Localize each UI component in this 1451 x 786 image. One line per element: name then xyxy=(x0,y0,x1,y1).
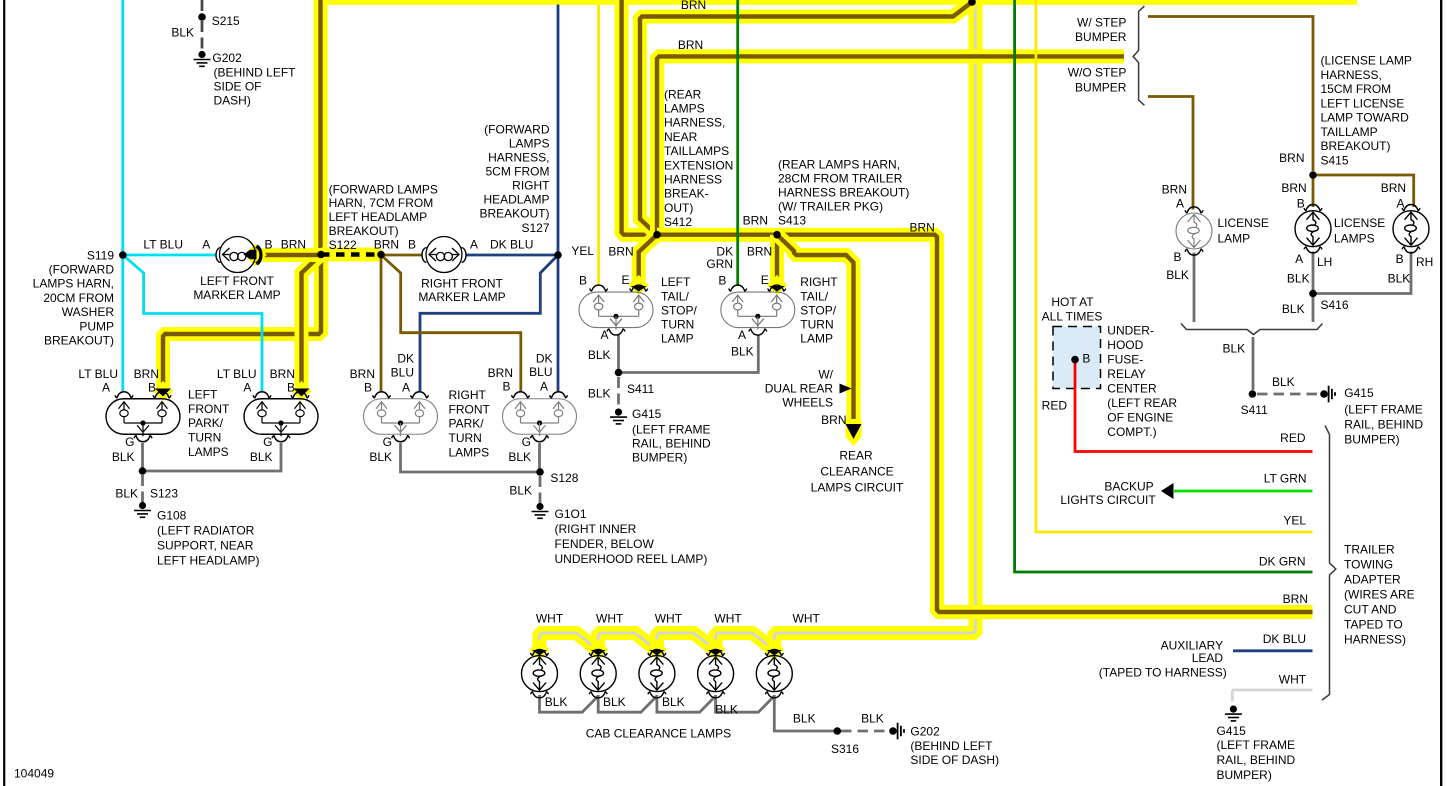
svg-text:BLK: BLK xyxy=(588,387,611,401)
svg-text:28CM FROM TRAILER: 28CM FROM TRAILER xyxy=(778,171,903,185)
svg-text:(REAR LAMPS HARN,: (REAR LAMPS HARN, xyxy=(778,157,900,171)
svg-text:OUT): OUT) xyxy=(664,201,693,215)
svg-text:FENDER, BELOW: FENDER, BELOW xyxy=(555,537,655,551)
svg-text:WHT: WHT xyxy=(714,612,742,626)
svg-text:WHT: WHT xyxy=(536,612,564,626)
svg-text:LAMP: LAMP xyxy=(661,331,694,345)
svg-text:HOOD: HOOD xyxy=(1107,338,1143,352)
svg-text:A: A xyxy=(738,328,746,342)
svg-text:BRN: BRN xyxy=(134,367,159,381)
svg-text:B: B xyxy=(264,237,272,251)
svg-text:REAR: REAR xyxy=(839,448,873,462)
svg-text:BRN: BRN xyxy=(910,220,935,234)
svg-text:HARNESS,: HARNESS, xyxy=(488,150,549,164)
svg-text:B: B xyxy=(148,380,156,394)
svg-text:WHT: WHT xyxy=(793,612,821,626)
svg-text:RIGHT: RIGHT xyxy=(800,275,838,289)
svg-text:SUPPORT, NEAR: SUPPORT, NEAR xyxy=(157,538,254,552)
svg-text:20CM FROM: 20CM FROM xyxy=(43,291,114,305)
svg-text:5CM FROM: 5CM FROM xyxy=(486,165,550,179)
svg-text:TURN: TURN xyxy=(800,317,833,331)
svg-text:WHT: WHT xyxy=(655,612,683,626)
svg-text:(REAR: (REAR xyxy=(664,87,702,101)
svg-text:CAB CLEARANCE LAMPS: CAB CLEARANCE LAMPS xyxy=(586,727,731,741)
svg-text:G202: G202 xyxy=(910,725,940,739)
svg-text:G: G xyxy=(263,435,272,449)
svg-text:B: B xyxy=(1297,197,1305,211)
svg-text:(RIGHT INNER: (RIGHT INNER xyxy=(555,522,637,536)
svg-text:LAMP: LAMP xyxy=(1218,231,1251,245)
svg-text:G415: G415 xyxy=(1217,724,1247,738)
svg-text:CUT AND: CUT AND xyxy=(1344,602,1397,616)
svg-text:W/: W/ xyxy=(818,367,833,381)
svg-text:LICENSE: LICENSE xyxy=(1218,216,1269,230)
svg-text:RED: RED xyxy=(1042,399,1068,413)
svg-text:LAMPS: LAMPS xyxy=(1334,231,1375,245)
svg-text:BLK: BLK xyxy=(250,450,273,464)
svg-text:BLK: BLK xyxy=(731,344,754,358)
svg-text:S411: S411 xyxy=(627,382,654,396)
svg-text:S128: S128 xyxy=(550,471,578,485)
svg-text:S415: S415 xyxy=(1321,153,1349,167)
svg-text:BLK: BLK xyxy=(508,450,531,464)
svg-text:E: E xyxy=(761,273,769,287)
svg-text:B: B xyxy=(408,237,416,251)
svg-text:HARNESS: HARNESS xyxy=(664,173,722,187)
svg-text:CENTER: CENTER xyxy=(1107,382,1157,396)
svg-text:ALL TIMES: ALL TIMES xyxy=(1042,310,1103,324)
svg-text:(LEFT FRAME: (LEFT FRAME xyxy=(1344,402,1422,416)
svg-text:OF ENGINE: OF ENGINE xyxy=(1107,411,1173,425)
svg-text:TURN: TURN xyxy=(661,317,694,331)
svg-text:15CM FROM: 15CM FROM xyxy=(1321,82,1392,96)
svg-text:LAMPS: LAMPS xyxy=(509,136,550,150)
svg-text:104049: 104049 xyxy=(14,767,54,781)
svg-text:LAMPS HARN,: LAMPS HARN, xyxy=(33,277,114,291)
svg-text:S416: S416 xyxy=(1321,298,1349,312)
svg-text:BRN: BRN xyxy=(374,237,399,251)
svg-text:TAPED TO: TAPED TO xyxy=(1344,617,1403,631)
svg-text:(LEFT FRAME: (LEFT FRAME xyxy=(632,423,710,437)
svg-text:BREAKOUT): BREAKOUT) xyxy=(1321,139,1391,153)
svg-text:RIGHT: RIGHT xyxy=(449,388,487,402)
svg-text:DUAL REAR: DUAL REAR xyxy=(765,381,834,395)
svg-text:G: G xyxy=(125,435,134,449)
svg-text:BLU: BLU xyxy=(391,365,414,379)
svg-text:BUMPER): BUMPER) xyxy=(1344,432,1399,446)
svg-text:NEAR: NEAR xyxy=(664,130,698,144)
svg-text:MARKER LAMP: MARKER LAMP xyxy=(193,288,280,302)
svg-text:BLK: BLK xyxy=(1272,375,1295,389)
svg-text:BRN: BRN xyxy=(678,38,703,52)
svg-text:RAIL, BEHIND: RAIL, BEHIND xyxy=(1344,417,1423,431)
svg-text:A: A xyxy=(1295,252,1303,266)
svg-text:EXTENSION: EXTENSION xyxy=(664,158,733,172)
svg-text:BLK: BLK xyxy=(1282,302,1305,316)
svg-text:DASH): DASH) xyxy=(214,93,251,107)
svg-text:RAIL, BEHIND: RAIL, BEHIND xyxy=(632,436,711,450)
svg-text:LEFT: LEFT xyxy=(188,388,218,402)
svg-text:A: A xyxy=(402,380,410,394)
svg-text:FUSE-: FUSE- xyxy=(1107,353,1143,367)
svg-text:BREAKOUT): BREAKOUT) xyxy=(329,224,399,238)
svg-text:BRN: BRN xyxy=(821,413,846,427)
svg-text:STOP/: STOP/ xyxy=(661,303,697,317)
svg-text:G415: G415 xyxy=(632,407,662,421)
svg-text:BRN: BRN xyxy=(1279,151,1304,165)
svg-text:B: B xyxy=(1082,351,1090,365)
svg-text:A: A xyxy=(600,328,608,342)
svg-text:LAMPS: LAMPS xyxy=(188,445,229,459)
svg-text:BLK: BLK xyxy=(662,695,685,709)
svg-text:CLEARANCE: CLEARANCE xyxy=(820,464,893,478)
svg-text:(LEFT FRAME: (LEFT FRAME xyxy=(1217,738,1295,752)
svg-text:FRONT: FRONT xyxy=(188,402,230,416)
svg-text:HOT AT: HOT AT xyxy=(1051,295,1094,309)
svg-text:B: B xyxy=(718,273,726,287)
svg-text:TAIL/: TAIL/ xyxy=(800,289,828,303)
svg-text:(TAPED TO HARNESS): (TAPED TO HARNESS) xyxy=(1099,665,1227,679)
svg-text:G202: G202 xyxy=(212,51,242,65)
svg-text:BLK: BLK xyxy=(369,450,392,464)
svg-text:TRAILER: TRAILER xyxy=(1344,542,1395,556)
svg-text:BREAKOUT): BREAKOUT) xyxy=(44,334,114,348)
svg-text:BLK: BLK xyxy=(793,712,816,726)
svg-text:FRONT: FRONT xyxy=(449,402,491,416)
svg-text:GRN: GRN xyxy=(706,257,733,271)
svg-text:BRN: BRN xyxy=(1283,592,1308,606)
svg-text:PUMP: PUMP xyxy=(79,319,114,333)
svg-text:G: G xyxy=(383,435,392,449)
svg-text:LEFT FRONT: LEFT FRONT xyxy=(200,274,274,288)
svg-text:LT GRN: LT GRN xyxy=(1264,471,1307,485)
svg-text:BLK: BLK xyxy=(545,695,568,709)
svg-text:B: B xyxy=(364,380,372,394)
svg-text:PARK/: PARK/ xyxy=(188,416,224,430)
svg-text:BRN: BRN xyxy=(747,244,772,258)
svg-text:A: A xyxy=(540,380,548,394)
svg-text:SIDE OF: SIDE OF xyxy=(214,79,262,93)
svg-text:BLU: BLU xyxy=(529,365,552,379)
svg-text:A: A xyxy=(1396,197,1404,211)
svg-text:BRN: BRN xyxy=(350,367,375,381)
svg-text:G1O1: G1O1 xyxy=(555,507,587,521)
svg-text:BUMPER): BUMPER) xyxy=(1217,768,1272,782)
svg-text:TURN: TURN xyxy=(188,431,221,445)
svg-text:BLK: BLK xyxy=(1166,268,1189,282)
svg-text:BLK: BLK xyxy=(112,450,135,464)
svg-text:LAMPS CIRCUIT: LAMPS CIRCUIT xyxy=(811,480,904,494)
svg-text:BRN: BRN xyxy=(743,213,768,227)
svg-text:TAILLAMPS: TAILLAMPS xyxy=(664,144,729,158)
svg-text:BLK: BLK xyxy=(115,486,138,500)
svg-text:RED: RED xyxy=(1280,431,1306,445)
svg-text:BACKUP: BACKUP xyxy=(1104,479,1153,493)
svg-text:RELAY: RELAY xyxy=(1107,367,1145,381)
svg-text:UNDERHOOD REEL LAMP): UNDERHOOD REEL LAMP) xyxy=(555,552,708,566)
svg-text:A: A xyxy=(1176,197,1184,211)
svg-text:LAMP: LAMP xyxy=(800,331,833,345)
svg-text:(BEHIND LEFT: (BEHIND LEFT xyxy=(910,739,993,753)
svg-text:BRN: BRN xyxy=(1281,181,1306,195)
svg-text:TAILLAMP: TAILLAMP xyxy=(1321,125,1378,139)
svg-text:(FORWARD: (FORWARD xyxy=(49,263,115,277)
svg-text:HEADLAMP: HEADLAMP xyxy=(483,193,549,207)
svg-text:WASHER: WASHER xyxy=(62,305,115,319)
svg-text:YEL: YEL xyxy=(1283,513,1306,527)
svg-text:BLK: BLK xyxy=(509,483,532,497)
svg-text:BRN: BRN xyxy=(1381,181,1406,195)
svg-text:(LICENSE LAMP: (LICENSE LAMP xyxy=(1321,54,1412,68)
svg-text:(LEFT REAR: (LEFT REAR xyxy=(1107,396,1177,410)
svg-text:BRN: BRN xyxy=(681,0,706,12)
svg-text:HARNESS,: HARNESS, xyxy=(1321,68,1382,82)
svg-text:DK BLU: DK BLU xyxy=(1263,632,1306,646)
svg-text:BRN: BRN xyxy=(608,244,633,258)
svg-text:BUMPER): BUMPER) xyxy=(632,450,687,464)
svg-text:S316: S316 xyxy=(831,742,859,756)
svg-text:(FORWARD LAMPS: (FORWARD LAMPS xyxy=(329,182,438,196)
svg-text:B: B xyxy=(287,380,295,394)
svg-text:(LEFT RADIATOR: (LEFT RADIATOR xyxy=(157,523,255,537)
svg-text:BREAK-: BREAK- xyxy=(664,187,709,201)
svg-text:UNDER-: UNDER- xyxy=(1107,324,1154,338)
svg-text:HARNESS): HARNESS) xyxy=(1344,632,1406,646)
svg-text:RIGHT: RIGHT xyxy=(512,179,550,193)
svg-text:RH: RH xyxy=(1416,255,1433,269)
svg-text:BLK: BLK xyxy=(588,348,611,362)
svg-text:A: A xyxy=(470,237,478,251)
svg-text:BLK: BLK xyxy=(1287,271,1310,285)
svg-text:WHT: WHT xyxy=(1279,672,1307,686)
svg-text:TURN: TURN xyxy=(449,431,482,445)
svg-text:BRN: BRN xyxy=(270,367,295,381)
svg-text:S413: S413 xyxy=(778,213,806,227)
svg-text:BLK: BLK xyxy=(1223,341,1246,355)
svg-text:LEAD: LEAD xyxy=(1192,651,1224,665)
svg-text:RAIL, BEHIND: RAIL, BEHIND xyxy=(1217,753,1296,767)
svg-text:A: A xyxy=(202,237,210,251)
svg-text:BRN: BRN xyxy=(1162,182,1187,196)
svg-text:BREAKOUT): BREAKOUT) xyxy=(479,207,549,221)
svg-text:LAMPS: LAMPS xyxy=(664,102,705,116)
svg-text:S215: S215 xyxy=(212,14,240,28)
svg-text:LIGHTS CIRCUIT: LIGHTS CIRCUIT xyxy=(1060,493,1156,507)
svg-text:LEFT LICENSE: LEFT LICENSE xyxy=(1321,96,1405,110)
svg-text:S127: S127 xyxy=(521,221,549,235)
svg-text:BRN: BRN xyxy=(281,237,306,251)
svg-text:LAMPS: LAMPS xyxy=(449,445,490,459)
svg-text:LEFT HEADLAMP): LEFT HEADLAMP) xyxy=(157,553,259,567)
svg-text:(W/ TRAILER PKG): (W/ TRAILER PKG) xyxy=(778,199,883,213)
svg-text:A: A xyxy=(102,380,110,394)
svg-text:YEL: YEL xyxy=(571,244,594,258)
svg-text:W/ STEP: W/ STEP xyxy=(1077,16,1126,30)
svg-text:E: E xyxy=(621,273,629,287)
svg-text:B: B xyxy=(1173,250,1181,264)
svg-text:B: B xyxy=(1396,252,1404,266)
svg-text:W/O STEP: W/O STEP xyxy=(1068,66,1127,80)
svg-text:A: A xyxy=(243,380,251,394)
svg-text:S411: S411 xyxy=(1241,403,1268,417)
svg-text:TAIL/: TAIL/ xyxy=(661,289,689,303)
svg-text:PARK/: PARK/ xyxy=(449,417,485,431)
svg-text:COMPT.): COMPT.) xyxy=(1107,425,1156,439)
svg-text:(BEHIND LEFT: (BEHIND LEFT xyxy=(214,65,297,79)
svg-text:G: G xyxy=(522,435,531,449)
svg-text:B: B xyxy=(579,273,587,287)
svg-text:HARN, 7CM FROM: HARN, 7CM FROM xyxy=(329,196,434,210)
svg-text:S119: S119 xyxy=(87,248,114,262)
svg-text:WHEELS: WHEELS xyxy=(782,395,833,409)
svg-text:BUMPER: BUMPER xyxy=(1075,81,1127,95)
svg-text:S412: S412 xyxy=(664,215,692,229)
svg-text:HARNESS,: HARNESS, xyxy=(664,116,725,130)
svg-text:DK: DK xyxy=(397,351,414,365)
svg-text:S123: S123 xyxy=(150,486,178,500)
svg-text:HARNESS BREAKOUT): HARNESS BREAKOUT) xyxy=(778,185,909,199)
svg-text:BLK: BLK xyxy=(715,703,738,717)
svg-text:LEFT HEADLAMP: LEFT HEADLAMP xyxy=(329,210,427,224)
svg-text:LH: LH xyxy=(1317,255,1332,269)
svg-text:LT BLU: LT BLU xyxy=(78,367,118,381)
svg-text:BLK: BLK xyxy=(1388,271,1411,285)
svg-text:LEFT: LEFT xyxy=(661,275,691,289)
svg-text:BUMPER: BUMPER xyxy=(1075,30,1127,44)
svg-text:(WIRES ARE: (WIRES ARE xyxy=(1344,587,1415,601)
svg-text:G415: G415 xyxy=(1344,386,1374,400)
svg-text:LAMP TOWARD: LAMP TOWARD xyxy=(1321,111,1410,125)
svg-text:SIDE OF DASH): SIDE OF DASH) xyxy=(910,753,999,767)
svg-text:WHT: WHT xyxy=(596,612,624,626)
svg-text:BLK: BLK xyxy=(861,712,884,726)
svg-text:B: B xyxy=(502,380,510,394)
svg-text:LT BLU: LT BLU xyxy=(217,367,257,381)
svg-text:(FORWARD: (FORWARD xyxy=(484,122,550,136)
svg-text:DK: DK xyxy=(536,351,553,365)
svg-text:STOP/: STOP/ xyxy=(800,303,836,317)
svg-text:RIGHT FRONT: RIGHT FRONT xyxy=(421,276,503,290)
svg-text:ADAPTER: ADAPTER xyxy=(1344,572,1401,586)
svg-text:DK BLU: DK BLU xyxy=(490,237,533,251)
svg-text:BRN: BRN xyxy=(488,366,513,380)
svg-text:G108: G108 xyxy=(157,508,187,522)
svg-text:LICENSE: LICENSE xyxy=(1334,216,1385,230)
svg-text:TOWING: TOWING xyxy=(1344,557,1393,571)
svg-text:BLK: BLK xyxy=(171,26,194,40)
svg-text:S122: S122 xyxy=(329,238,357,252)
svg-text:MARKER LAMP: MARKER LAMP xyxy=(418,290,505,304)
svg-text:LT BLU: LT BLU xyxy=(143,237,183,251)
svg-text:BLK: BLK xyxy=(603,695,626,709)
svg-text:DK GRN: DK GRN xyxy=(1259,554,1306,568)
